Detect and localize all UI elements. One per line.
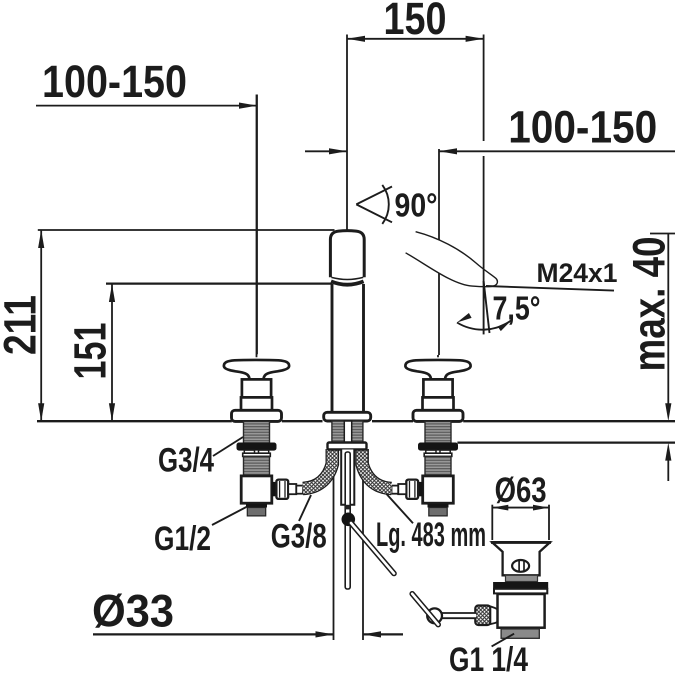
svg-text:M24x1: M24x1 bbox=[537, 258, 618, 288]
washer tabs bbox=[244, 450, 254, 453]
threaded shank lower bbox=[425, 456, 451, 476]
cross handle bbox=[224, 360, 289, 379]
ferrule bbox=[288, 484, 296, 494]
dimension D33 (hole) bbox=[92, 452, 403, 640]
mounting nut bbox=[237, 443, 276, 450]
label G3/4 bbox=[158, 437, 243, 480]
svg-text:100-150: 100-150 bbox=[42, 56, 187, 107]
svg-text:G3/4: G3/4 bbox=[158, 442, 214, 480]
coupling nut G3/8 bbox=[406, 480, 418, 499]
handle neck bbox=[242, 379, 271, 397]
mounting nut bbox=[419, 443, 458, 450]
svg-text:211: 211 bbox=[0, 295, 46, 355]
spout (swivel outline, thin lines) bbox=[406, 232, 498, 287]
side port nut (knurled) bbox=[475, 606, 490, 626]
port cone bbox=[490, 606, 499, 624]
washer bbox=[424, 453, 452, 456]
washer bbox=[243, 453, 271, 456]
seal ring bbox=[493, 582, 548, 589]
valve body bbox=[241, 476, 272, 503]
swivel angle 90 deg bbox=[356, 185, 437, 224]
svg-text:7,5°: 7,5° bbox=[493, 290, 541, 327]
dimension 151 (spout height) bbox=[65, 284, 333, 422]
column threaded shank bbox=[332, 421, 363, 450]
label G1 1/4 bbox=[449, 634, 528, 675]
label G1/2 bbox=[154, 507, 246, 558]
left handle valve unit bbox=[224, 95, 303, 516]
drain tailpiece G1 1/4 bbox=[500, 627, 543, 629]
coupling nut G3/8 bbox=[276, 480, 288, 499]
ferrule bbox=[398, 484, 406, 494]
cross handle bbox=[405, 360, 470, 379]
svg-text:150: 150 bbox=[384, 0, 447, 44]
svg-text:151: 151 bbox=[65, 323, 116, 380]
braided supply hose right bbox=[362, 449, 391, 489]
extension line to handle centre bbox=[256, 95, 258, 358]
lever ball joint bbox=[427, 608, 442, 623]
dimension 100-150 right bbox=[305, 102, 675, 356]
grey collar above seal bbox=[506, 575, 538, 581]
pull rod bbox=[345, 452, 350, 589]
svg-text:Ø33: Ø33 bbox=[92, 586, 174, 637]
svg-text:max. 40: max. 40 bbox=[624, 237, 675, 372]
washer below seal bbox=[494, 589, 547, 594]
dimension 211 (total height) bbox=[0, 230, 335, 421]
svg-text:G1 1/4: G1 1/4 bbox=[449, 641, 528, 675]
dimension 100-150 left bbox=[36, 56, 257, 354]
pull rod guide tube bbox=[341, 450, 354, 505]
label G3/8 bbox=[271, 495, 327, 556]
braided supply hose left bbox=[303, 449, 333, 489]
inlet tailpiece (G1/2) bbox=[428, 504, 449, 508]
svg-text:90°: 90° bbox=[395, 187, 438, 224]
pop-up waste body bbox=[412, 542, 551, 638]
column escutcheon flange bbox=[324, 412, 371, 421]
deck / mounting surface lines bbox=[37, 421, 675, 442]
rod adjuster nub bbox=[345, 505, 351, 510]
svg-text:Ø63: Ø63 bbox=[495, 471, 547, 510]
hose coupling port bbox=[272, 482, 277, 496]
extension line to handle centre bbox=[437, 355, 439, 357]
svg-text:Lg. 483 mm: Lg. 483 mm bbox=[376, 516, 486, 554]
dimension D63 (drain flange) bbox=[492, 471, 549, 540]
valve body bbox=[423, 476, 454, 503]
spout column (front view) bbox=[330, 231, 364, 413]
threaded shank (G3/4) bbox=[244, 421, 270, 443]
pull rod lever (rotated) bbox=[351, 523, 394, 574]
overflow slot bbox=[512, 560, 529, 572]
dimension 150 (spout projection) bbox=[347, 0, 484, 230]
hose coupling port bbox=[418, 482, 423, 496]
threaded shank lower bbox=[244, 456, 270, 476]
svg-text:G1/2: G1/2 bbox=[154, 520, 211, 558]
right handle valve unit bbox=[392, 355, 471, 516]
handle neck bbox=[423, 379, 452, 397]
washer tabs bbox=[426, 450, 436, 453]
thread label M24x1 with leader bbox=[486, 258, 618, 291]
label Lg. 483 mm bbox=[376, 494, 486, 554]
svg-text:100-150: 100-150 bbox=[508, 102, 657, 153]
waste lever bbox=[412, 594, 438, 625]
inlet tailpiece (G1/2) bbox=[246, 504, 267, 508]
column lock nut bbox=[328, 443, 367, 450]
escutcheon flange bbox=[232, 410, 282, 421]
svg-text:G3/8: G3/8 bbox=[271, 518, 327, 556]
horizontal link rod bbox=[437, 612, 476, 619]
drain lower body bbox=[498, 594, 545, 628]
pull rod knob bbox=[342, 513, 356, 527]
aerator angle 7.5 deg bbox=[457, 156, 541, 334]
pull-rod tube through shank bbox=[344, 421, 351, 450]
threaded shank (G3/4) bbox=[425, 421, 451, 443]
escutcheon flange bbox=[413, 410, 463, 421]
dimension max. 40 (deck thickness) bbox=[624, 234, 675, 482]
